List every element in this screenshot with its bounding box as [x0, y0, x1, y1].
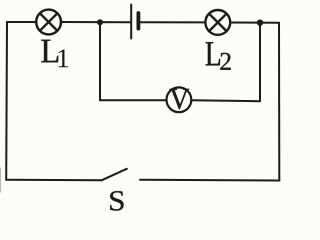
wire L1 to battery — [61, 21, 131, 23]
wire right vertical — [278, 23, 280, 181]
scan artifact left edge — [0, 168, 2, 192]
label S (switch) — [110, 191, 123, 210]
node junction dot right — [257, 20, 263, 26]
wire top left segment — [7, 21, 36, 23]
switch S blade — [102, 169, 127, 180]
wire voltmeter branch left vertical — [99, 22, 101, 100]
wire battery to L2 — [140, 21, 205, 23]
battery long plate — [130, 5, 132, 39]
wire voltmeter branch left horizontal — [100, 99, 166, 101]
label L2 — [206, 42, 220, 65]
voltmeter U1 circle — [167, 87, 192, 112]
wire L2 to top right corner — [230, 22, 279, 24]
lamp L2 — [205, 10, 230, 35]
wire bottom left segment — [6, 179, 102, 181]
lamp L1 — [36, 10, 61, 35]
wire bottom right segment — [140, 179, 279, 182]
wire left vertical — [5, 22, 8, 180]
node junction dot left — [97, 19, 103, 25]
wire voltmeter branch right vertical — [259, 23, 261, 102]
label V (voltmeter) — [170, 89, 189, 109]
battery short plate — [136, 13, 140, 29]
label L1 — [41, 40, 58, 63]
wire voltmeter branch right horizontal — [192, 100, 261, 101]
